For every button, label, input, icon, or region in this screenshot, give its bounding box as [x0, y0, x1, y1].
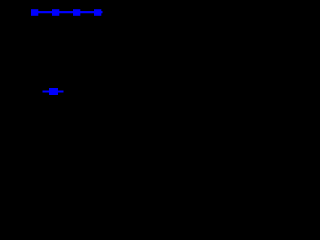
wire top bus segment sq2-sq3	[59, 11, 74, 13]
wire top bus segment sq3-sq4	[80, 11, 95, 13]
component bottom block	[49, 88, 58, 95]
wire stub right of sq4	[101, 11, 103, 13]
component square node 1	[31, 9, 38, 16]
wire top bus segment sq1-sq2	[38, 11, 53, 13]
component square node 4	[94, 9, 101, 16]
wire bottom component leads	[43, 91, 64, 93]
component square node 2	[52, 9, 59, 16]
component square node 3	[73, 9, 80, 16]
